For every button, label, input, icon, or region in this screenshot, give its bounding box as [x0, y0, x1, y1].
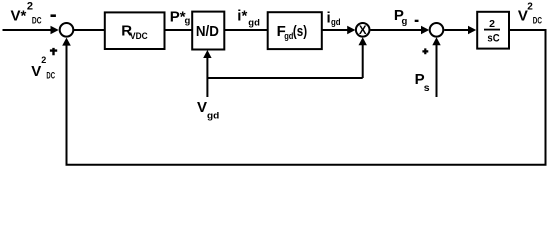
arrowhead Vgd into N/D bottom	[203, 50, 211, 58]
summing junction S2	[430, 23, 444, 37]
arrowhead into S1 left	[51, 26, 59, 35]
svg-text:g: g	[185, 15, 191, 26]
svg-text:V: V	[197, 99, 207, 116]
summing junction S1	[60, 23, 74, 37]
plus sign at S1	[50, 48, 57, 55]
svg-text:2: 2	[27, 1, 33, 13]
arrowhead into S2 left	[421, 26, 429, 35]
minus sign at S1	[51, 14, 56, 17]
svg-text:X: X	[359, 25, 367, 37]
arrowhead Ps into S2 bottom	[432, 37, 440, 45]
block Fgd(s)	[268, 12, 322, 49]
block N/D	[192, 12, 224, 50]
arrowhead Vgd into X bottom	[359, 37, 367, 45]
svg-text:DC: DC	[32, 16, 42, 26]
svg-text:V*: V*	[11, 8, 27, 25]
wire RVDC to N/D	[165, 29, 193, 31]
svg-text:gd: gd	[207, 110, 219, 120]
wire 2/sC output to corner	[509, 29, 546, 31]
svg-text:N/D: N/D	[196, 23, 219, 40]
svg-text:g: g	[402, 16, 408, 27]
svg-text:gd: gd	[248, 18, 260, 29]
wire input V*2dc to summing junction S1	[3, 29, 52, 31]
wire Vgd branch horizontal	[207, 77, 362, 79]
arrowhead into X left	[347, 26, 355, 35]
svg-text:s: s	[424, 82, 430, 94]
plus sign at S2	[422, 48, 428, 54]
svg-text:i*: i*	[237, 8, 247, 25]
svg-text:P*: P*	[170, 9, 186, 26]
svg-text:2: 2	[41, 55, 46, 65]
multiplier X circle	[356, 23, 370, 37]
wire Vgd branch vertical into X	[362, 42, 364, 78]
svg-text:DC: DC	[533, 15, 543, 25]
svg-text:V: V	[31, 63, 41, 80]
wire Ps vertical into S2	[436, 44, 438, 97]
wire Fgd to multiplier X	[322, 29, 349, 31]
svg-text:gd: gd	[331, 17, 341, 27]
feedback wire right vertical and bottom and left vertical	[67, 29, 546, 165]
wire Vgd vertical into N/D	[206, 56, 208, 97]
wire N/D to Fgd	[224, 29, 267, 31]
minus sign at S2	[415, 20, 419, 22]
svg-text:2: 2	[489, 18, 495, 30]
fraction bar	[484, 29, 500, 31]
arrowhead into 2/sC block	[468, 26, 476, 35]
block RVDC	[105, 12, 165, 49]
wire S1 to RVDC	[73, 29, 105, 31]
svg-text:2: 2	[527, 2, 533, 13]
wire X to summing junction S2	[370, 29, 422, 31]
wire S2 to 2/sC block	[444, 29, 469, 31]
svg-text:DC: DC	[46, 70, 55, 80]
svg-text:(s): (s)	[293, 23, 307, 40]
block 2/sC	[477, 12, 509, 49]
svg-text:sC: sC	[487, 33, 499, 45]
arrowhead feedback into S1 bottom	[62, 38, 71, 46]
svg-text:VDC: VDC	[130, 31, 148, 41]
